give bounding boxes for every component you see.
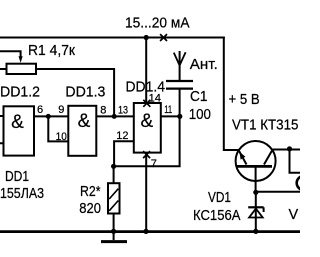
gate DD1.2 box (4, 106, 35, 155)
svg-text:820: 820 (79, 201, 101, 217)
wire feedback to pin10 (48, 116, 68, 141)
svg-text:11: 11 (164, 104, 172, 116)
wire base node right (256, 191, 300, 193)
antenna symbol (174, 52, 186, 65)
gate DD1.3 box (68, 106, 96, 156)
capacitor C1 plates (166, 81, 193, 89)
wire DD1.2 input stubs (0, 116, 4, 143)
resistor R2 body (108, 183, 120, 213)
wire R2 top lead (113, 166, 115, 183)
wire C1 bottom lead (179, 90, 181, 117)
wire R1 left lead (0, 68, 7, 70)
svg-text:DD1.2: DD1.2 (0, 85, 40, 101)
svg-text:9: 9 (58, 104, 64, 116)
wire R1 right lead to node (36, 69, 114, 116)
svg-text:8: 8 (100, 105, 106, 117)
svg-text:&: & (78, 111, 91, 132)
VT1 emitter arrow (239, 152, 245, 160)
wire zener chain (255, 192, 257, 231)
wire node11 down and left to R2 node (114, 116, 180, 166)
svg-text:VD1: VD1 (208, 190, 231, 206)
cross on supply bus (160, 34, 167, 41)
R1 wiper arrow (19, 56, 23, 63)
svg-text:R2*: R2* (80, 184, 101, 200)
svg-text:6: 6 (37, 104, 43, 116)
svg-text:14: 14 (149, 93, 161, 105)
zener diode VD1 (248, 207, 263, 217)
wire ground bus (0, 230, 300, 233)
wire R2 bottom lead (113, 214, 115, 232)
svg-text:155ЛА3: 155ЛА3 (0, 186, 44, 202)
svg-text:12: 12 (116, 130, 128, 142)
svg-text:+ 5 В: + 5 В (229, 92, 260, 108)
svg-text:С1: С1 (190, 89, 208, 105)
wire base lead down (255, 167, 257, 192)
svg-text:10: 10 (56, 131, 67, 143)
wire R1 wiper feed (0, 51, 21, 56)
cross pin14 (143, 100, 150, 107)
svg-text:13: 13 (118, 105, 128, 117)
svg-text:7: 7 (151, 158, 157, 170)
wire pin12 loop (114, 141, 134, 166)
wire pin14 drop from bus (145, 38, 147, 104)
cross pin7 (143, 151, 150, 158)
ground symbol (101, 232, 127, 242)
VT1 collector (264, 151, 272, 165)
resistor R1 (trimmer body) (7, 64, 37, 74)
wire pin8 to pin13 (96, 115, 134, 117)
svg-text:15...20 мА: 15...20 мА (125, 16, 190, 32)
svg-text:&: & (140, 111, 153, 132)
wire antenna mast (179, 51, 181, 81)
VT1 emitter (239, 151, 247, 165)
VT1 base bar (237, 165, 272, 168)
wire right drop from bus to emitter (224, 37, 240, 151)
wire pin6 to pin9 (34, 115, 68, 117)
svg-text:DD1.3: DD1.3 (65, 85, 105, 101)
svg-text:V: V (289, 207, 299, 223)
transistor VT1 circle (236, 141, 276, 181)
partial component circle at right edge (297, 176, 311, 190)
wire collector branch down right (290, 149, 301, 173)
svg-text:Ант.: Ант. (190, 57, 218, 73)
svg-text:VT1 КТ315: VT1 КТ315 (232, 118, 299, 134)
gate DD1.4 box (134, 103, 161, 153)
svg-text:КС156А: КС156А (193, 208, 241, 224)
wire collector out (272, 149, 300, 151)
wire pin11 stub (161, 115, 180, 117)
svg-text:&: & (11, 112, 24, 133)
svg-text:R1 4,7к: R1 4,7к (28, 43, 76, 59)
svg-text:DD1: DD1 (5, 169, 29, 185)
wire top supply bus (0, 37, 225, 39)
svg-text:100: 100 (189, 107, 211, 123)
wire pin7 to ground bus (145, 154, 147, 232)
